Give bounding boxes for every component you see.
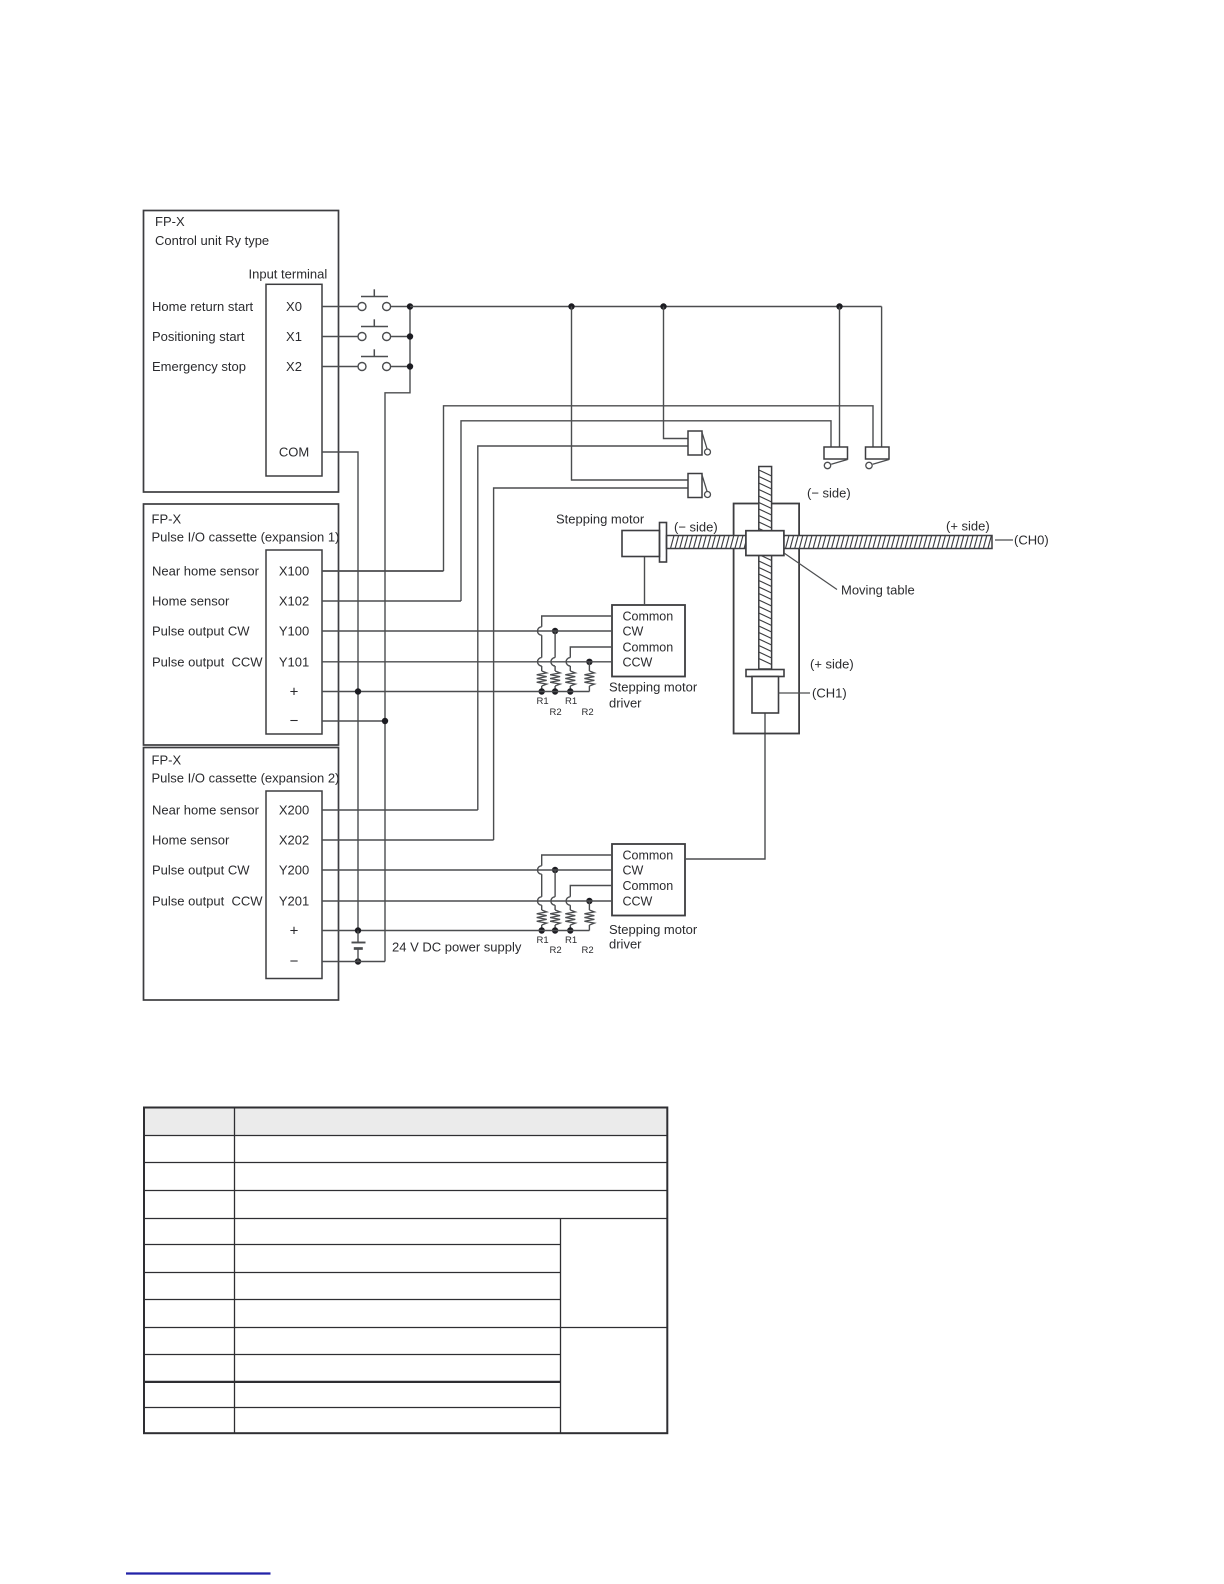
svg-text:Stepping motor: Stepping motor xyxy=(609,922,698,937)
svg-text:Moving table: Moving table xyxy=(841,583,915,598)
svg-text:Pulse output CCW: Pulse output CCW xyxy=(152,894,263,909)
svg-text:X1: X1 xyxy=(286,329,302,344)
svg-text:Emergency stop: Emergency stop xyxy=(152,359,246,374)
svg-text:Near home sensor: Near home sensor xyxy=(152,803,260,818)
svg-text:CCW: CCW xyxy=(623,895,653,909)
svg-text:(+ side): (+ side) xyxy=(946,519,990,534)
svg-text:Input terminal: Input terminal xyxy=(249,267,328,282)
svg-text:driver: driver xyxy=(609,696,642,711)
svg-text:Common: Common xyxy=(623,610,674,624)
svg-text:X0: X0 xyxy=(286,299,302,314)
svg-text:(− side): (− side) xyxy=(674,520,718,535)
svg-text:R1: R1 xyxy=(565,696,577,707)
svg-text:X102: X102 xyxy=(279,594,309,609)
svg-text:Home sensor: Home sensor xyxy=(152,833,230,848)
svg-text:(+ side): (+ side) xyxy=(810,657,854,672)
svg-text:COM: COM xyxy=(279,445,309,460)
svg-text:X100: X100 xyxy=(279,564,309,579)
svg-text:R2: R2 xyxy=(582,707,594,718)
svg-text:−: − xyxy=(290,953,299,970)
svg-text:+: + xyxy=(290,684,299,701)
svg-text:24 V DC power supply: 24 V DC power supply xyxy=(392,940,522,955)
svg-text:−: − xyxy=(290,713,299,730)
svg-text:Stepping motor: Stepping motor xyxy=(609,680,698,695)
svg-text:CW: CW xyxy=(623,864,644,878)
svg-text:Pulse output CW: Pulse output CW xyxy=(152,863,250,878)
svg-text:Y100: Y100 xyxy=(279,624,309,639)
svg-text:Near home sensor: Near home sensor xyxy=(152,564,260,579)
svg-text:Y201: Y201 xyxy=(279,894,309,909)
svg-text:Pulse output CW: Pulse output CW xyxy=(152,624,250,639)
svg-text:R1: R1 xyxy=(537,935,549,946)
svg-text:Positioning start: Positioning start xyxy=(152,329,245,344)
svg-text:Pulse I/O cassette (expansion: Pulse I/O cassette (expansion 1) xyxy=(152,530,340,545)
svg-text:(CH0): (CH0) xyxy=(1014,533,1049,548)
svg-text:R2: R2 xyxy=(550,707,562,718)
svg-text:FP-X: FP-X xyxy=(152,512,182,527)
svg-text:X200: X200 xyxy=(279,803,309,818)
svg-text:FP-X: FP-X xyxy=(152,753,182,768)
svg-text:R1: R1 xyxy=(565,935,577,946)
svg-text:CW: CW xyxy=(623,625,644,639)
svg-text:Y200: Y200 xyxy=(279,863,309,878)
svg-text:+: + xyxy=(290,923,299,940)
svg-text:(CH1): (CH1) xyxy=(812,686,847,701)
svg-text:Home return start: Home return start xyxy=(152,299,254,314)
svg-text:X2: X2 xyxy=(286,359,302,374)
svg-text:Stepping motor: Stepping motor xyxy=(556,512,645,527)
svg-text:R1: R1 xyxy=(537,696,549,707)
svg-text:Y101: Y101 xyxy=(279,654,309,669)
svg-text:X202: X202 xyxy=(279,833,309,848)
svg-text:Home sensor: Home sensor xyxy=(152,594,230,609)
svg-text:R2: R2 xyxy=(582,945,594,956)
svg-text:FP-X: FP-X xyxy=(155,214,185,229)
svg-text:CCW: CCW xyxy=(623,655,653,669)
svg-text:driver: driver xyxy=(609,937,642,952)
svg-text:(− side): (− side) xyxy=(807,486,851,501)
svg-text:Common: Common xyxy=(623,849,674,863)
svg-text:R2: R2 xyxy=(550,945,562,956)
svg-text:Pulse I/O cassette (expansion: Pulse I/O cassette (expansion 2) xyxy=(152,771,340,786)
svg-text:Control unit Ry type: Control unit Ry type xyxy=(155,233,269,248)
svg-text:Common: Common xyxy=(623,879,674,893)
svg-text:Common: Common xyxy=(623,641,674,655)
svg-text:Pulse output CCW: Pulse output CCW xyxy=(152,654,263,669)
